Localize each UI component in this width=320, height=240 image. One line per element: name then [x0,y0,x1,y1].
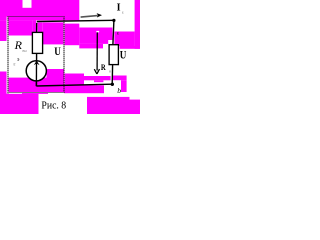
svg-text:R: R [101,62,106,72]
svg-text:R: R [14,38,23,52]
svg-text:э: э [17,57,20,63]
svg-text:н: н [109,69,111,73]
svg-text:I: I [117,2,121,13]
svg-text:U: U [54,46,61,58]
svg-text:b: b [117,86,121,95]
svg-text:ε: ε [122,10,124,15]
svg-text:U: U [120,50,127,62]
svg-text:Рис. 8: Рис. 8 [41,101,66,112]
